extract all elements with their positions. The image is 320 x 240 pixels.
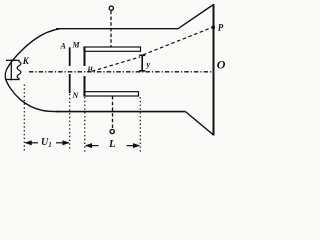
top lead terminal: [109, 6, 113, 10]
anode A upper bar: [69, 47, 71, 66]
dimension U1 left arrow: [25, 142, 38, 144]
svg-text:M: M: [72, 41, 81, 50]
guide dotted line at plate right: [139, 97, 141, 154]
spot P marker: [212, 26, 215, 29]
tube envelope bottom wall: [56, 111, 186, 113]
svg-text:P: P: [218, 23, 224, 33]
guide dotted line at cathode: [23, 85, 25, 153]
tube envelope left cap: [5, 29, 60, 112]
deflection plate M left tab: [84, 47, 86, 67]
cathode K heater bottom lead: [6, 79, 17, 81]
svg-text:y: y: [146, 60, 151, 69]
svg-text:L: L: [108, 139, 115, 150]
cathode K filament coil: [17, 60, 21, 79]
axis dash-dot line: [29, 71, 213, 73]
svg-text:U1: U1: [41, 137, 52, 149]
tube envelope top wall: [56, 28, 178, 30]
svg-text:K: K: [22, 56, 30, 66]
electron beam inside plates (dashed): [92, 57, 140, 71]
guide dotted line at anode: [69, 94, 71, 151]
dimension L left arrow: [86, 145, 99, 147]
cathode K heater top lead: [6, 59, 17, 61]
deflection plate N left tab: [84, 76, 86, 96]
svg-text:N: N: [72, 91, 80, 100]
tube flare top: [178, 5, 214, 29]
tube flare bottom: [186, 112, 214, 135]
svg-text:A: A: [60, 42, 67, 51]
dimension L right arrow: [127, 145, 140, 147]
deflection plate N (bottom) body: [84, 92, 139, 96]
svg-text:μ: μ: [87, 62, 93, 72]
guide dotted line at plate left: [84, 97, 86, 154]
electron beam after plates (dashed): [143, 27, 213, 55]
dimension U1 right arrow: [56, 142, 69, 144]
bottom lead terminal: [110, 129, 114, 133]
top plate lead wire: [110, 11, 112, 47]
deflection distance marker y: [139, 55, 145, 71]
deflection plate M (top) body: [84, 47, 141, 51]
cathode K support bar: [10, 60, 12, 81]
anode A lower bar: [69, 74, 71, 93]
svg-text:O: O: [217, 58, 226, 72]
bottom plate lead wire: [112, 96, 114, 129]
screen: [213, 4, 215, 136]
